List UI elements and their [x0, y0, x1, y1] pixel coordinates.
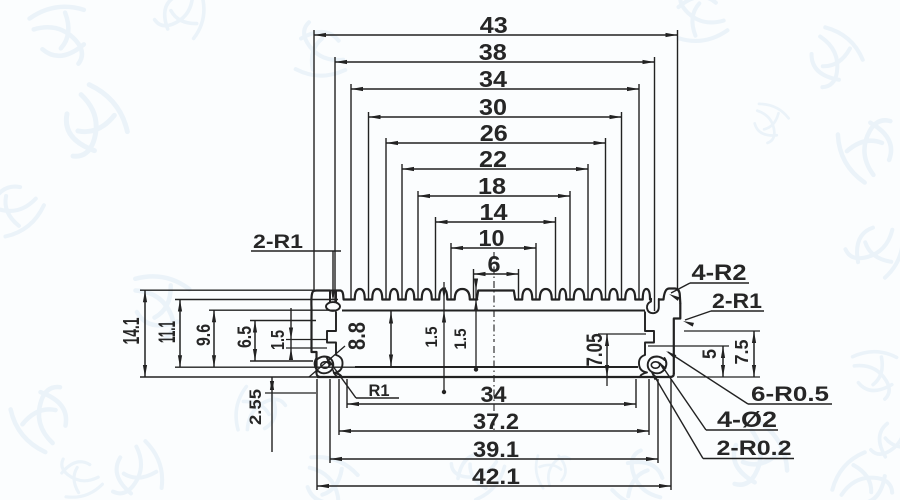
svg-text:14.1: 14.1	[118, 317, 144, 344]
svg-text:42.1: 42.1	[472, 464, 520, 489]
svg-text:6-R0.5: 6-R0.5	[751, 383, 829, 406]
svg-text:R1: R1	[369, 381, 390, 400]
svg-text:2-R0.2: 2-R0.2	[717, 437, 792, 460]
svg-text:6.5: 6.5	[235, 326, 256, 348]
svg-text:30: 30	[479, 94, 507, 120]
svg-text:1.5: 1.5	[268, 330, 288, 350]
svg-text:2.55: 2.55	[246, 389, 265, 425]
svg-text:7.5: 7.5	[732, 340, 752, 365]
svg-text:43: 43	[480, 12, 508, 38]
svg-text:8.8: 8.8	[344, 322, 371, 350]
svg-text:22: 22	[479, 146, 507, 172]
svg-text:7.05: 7.05	[582, 334, 607, 367]
svg-text:26: 26	[480, 120, 508, 146]
svg-text:10: 10	[479, 225, 505, 251]
svg-text:4-R2: 4-R2	[692, 260, 747, 285]
svg-text:2-R1: 2-R1	[712, 290, 762, 313]
svg-text:34: 34	[479, 66, 507, 92]
svg-text:37.2: 37.2	[473, 409, 519, 434]
svg-text:18: 18	[478, 173, 506, 199]
svg-text:38: 38	[479, 39, 507, 65]
svg-text:11.1: 11.1	[154, 321, 181, 343]
svg-text:1.5: 1.5	[451, 329, 470, 350]
svg-text:1.5: 1.5	[422, 327, 441, 348]
svg-text:14: 14	[480, 199, 508, 225]
svg-text:2-R1: 2-R1	[253, 231, 303, 253]
svg-text:5: 5	[700, 349, 721, 359]
svg-text:9.6: 9.6	[194, 324, 215, 346]
svg-text:39.1: 39.1	[473, 437, 519, 462]
svg-text:34: 34	[481, 382, 508, 407]
svg-text:4-Ø2: 4-Ø2	[717, 407, 777, 432]
